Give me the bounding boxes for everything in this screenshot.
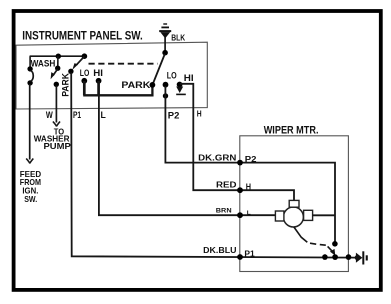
node case ground junction (346, 254, 352, 260)
wire W to washer pump (55, 86, 57, 123)
motor right brush (304, 210, 313, 220)
wiper switch blade (153, 54, 165, 84)
connector arrow feed (26, 159, 33, 164)
svg-text:L: L (101, 110, 106, 121)
svg-text:INSTRUMENT PANEL SW.: INSTRUMENT PANEL SW. (22, 29, 143, 43)
wire right brush to park vertical (313, 214, 335, 216)
svg-text:P2: P2 (168, 111, 180, 122)
svg-text:RED: RED (216, 180, 237, 190)
wire L run to BRN / motor left brush (99, 96, 275, 215)
wire tie line to PARK contact (83, 86, 152, 96)
node G (68, 69, 73, 74)
svg-text:DK.GRN: DK.GRN (198, 152, 236, 162)
node HI right contact (177, 82, 183, 88)
wire P2 run DK.GRN and down to park contact (165, 86, 335, 244)
wire top bus of wash switch (30, 55, 85, 57)
node HI left contact (96, 78, 102, 84)
node B (82, 53, 88, 59)
svg-text:HI: HI (93, 68, 103, 78)
svg-text:LO: LO (80, 68, 90, 78)
dashed mechanical link line (89, 63, 158, 65)
wire LO stub (83, 81, 86, 95)
wiper motor box (240, 136, 349, 272)
svg-text:L: L (247, 211, 252, 217)
node P1 terminal wiper (237, 254, 243, 260)
svg-text:DK.BLU: DK.BLU (203, 245, 236, 255)
motor left brush (275, 211, 284, 221)
svg-text:W: W (46, 110, 53, 121)
svg-text:H: H (197, 109, 202, 119)
park blade from node B with arrow (72, 57, 84, 70)
svg-text:BLK: BLK (171, 32, 186, 42)
switch arc C-D (31, 71, 34, 82)
node L terminal wiper (237, 212, 243, 218)
svg-text:WIPER MTR.: WIPER MTR. (264, 125, 319, 137)
node LO left contact (81, 78, 87, 84)
node P2 terminal wiper (237, 160, 243, 166)
node park upper contact (332, 241, 338, 247)
node below LO right (163, 93, 168, 98)
svg-text:BRN: BRN (216, 208, 232, 215)
wire H run RED to motor top brush (180, 84, 294, 201)
node F (54, 82, 59, 87)
node pivot junction (162, 50, 168, 56)
svg-text:PARK: PARK (61, 73, 71, 97)
wire P1 long run to DK.BLU (71, 73, 356, 258)
svg-text:HI: HI (184, 73, 194, 83)
node C (27, 66, 32, 71)
svg-text:H: H (246, 182, 251, 192)
HI momentary arrow symbol (176, 87, 186, 96)
node H terminal wiper (237, 187, 243, 193)
wire BLK ground to switch pivot (164, 37, 166, 53)
wire right drop to contact E (57, 56, 59, 66)
svg-text:PARK: PARK (121, 79, 150, 90)
wire FEED FROM IGN SW (29, 84, 31, 160)
svg-text:PUMP: PUMP (44, 141, 72, 151)
motor top brush (289, 200, 299, 207)
chassis ground right (355, 251, 368, 264)
node D (27, 80, 32, 85)
svg-text:P2: P2 (245, 154, 257, 164)
svg-text:P1: P1 (73, 110, 82, 121)
svg-text:LO: LO (167, 71, 177, 81)
wire left drop to contact C (29, 56, 31, 67)
svg-text:SW.: SW. (24, 194, 37, 204)
node LO right contact (163, 82, 169, 88)
instrument panel switch box (16, 42, 207, 109)
connector arrow washer (53, 122, 60, 127)
dashed cam link from motor (294, 227, 326, 245)
svg-text:P1: P1 (244, 248, 255, 258)
node PARK right contact (150, 82, 156, 88)
wire HI stub (97, 81, 100, 95)
chassis ground (BLK) (159, 23, 171, 38)
node P1 wire junction 1 (322, 254, 328, 260)
node A (56, 54, 61, 59)
node E (55, 66, 60, 71)
wash switch blade with arrow (51, 69, 58, 79)
park switch blade arrow (328, 246, 336, 255)
svg-text:WASH: WASH (31, 59, 56, 69)
motor M1 body (283, 207, 303, 227)
node P1 wire junction 2 (332, 254, 338, 260)
